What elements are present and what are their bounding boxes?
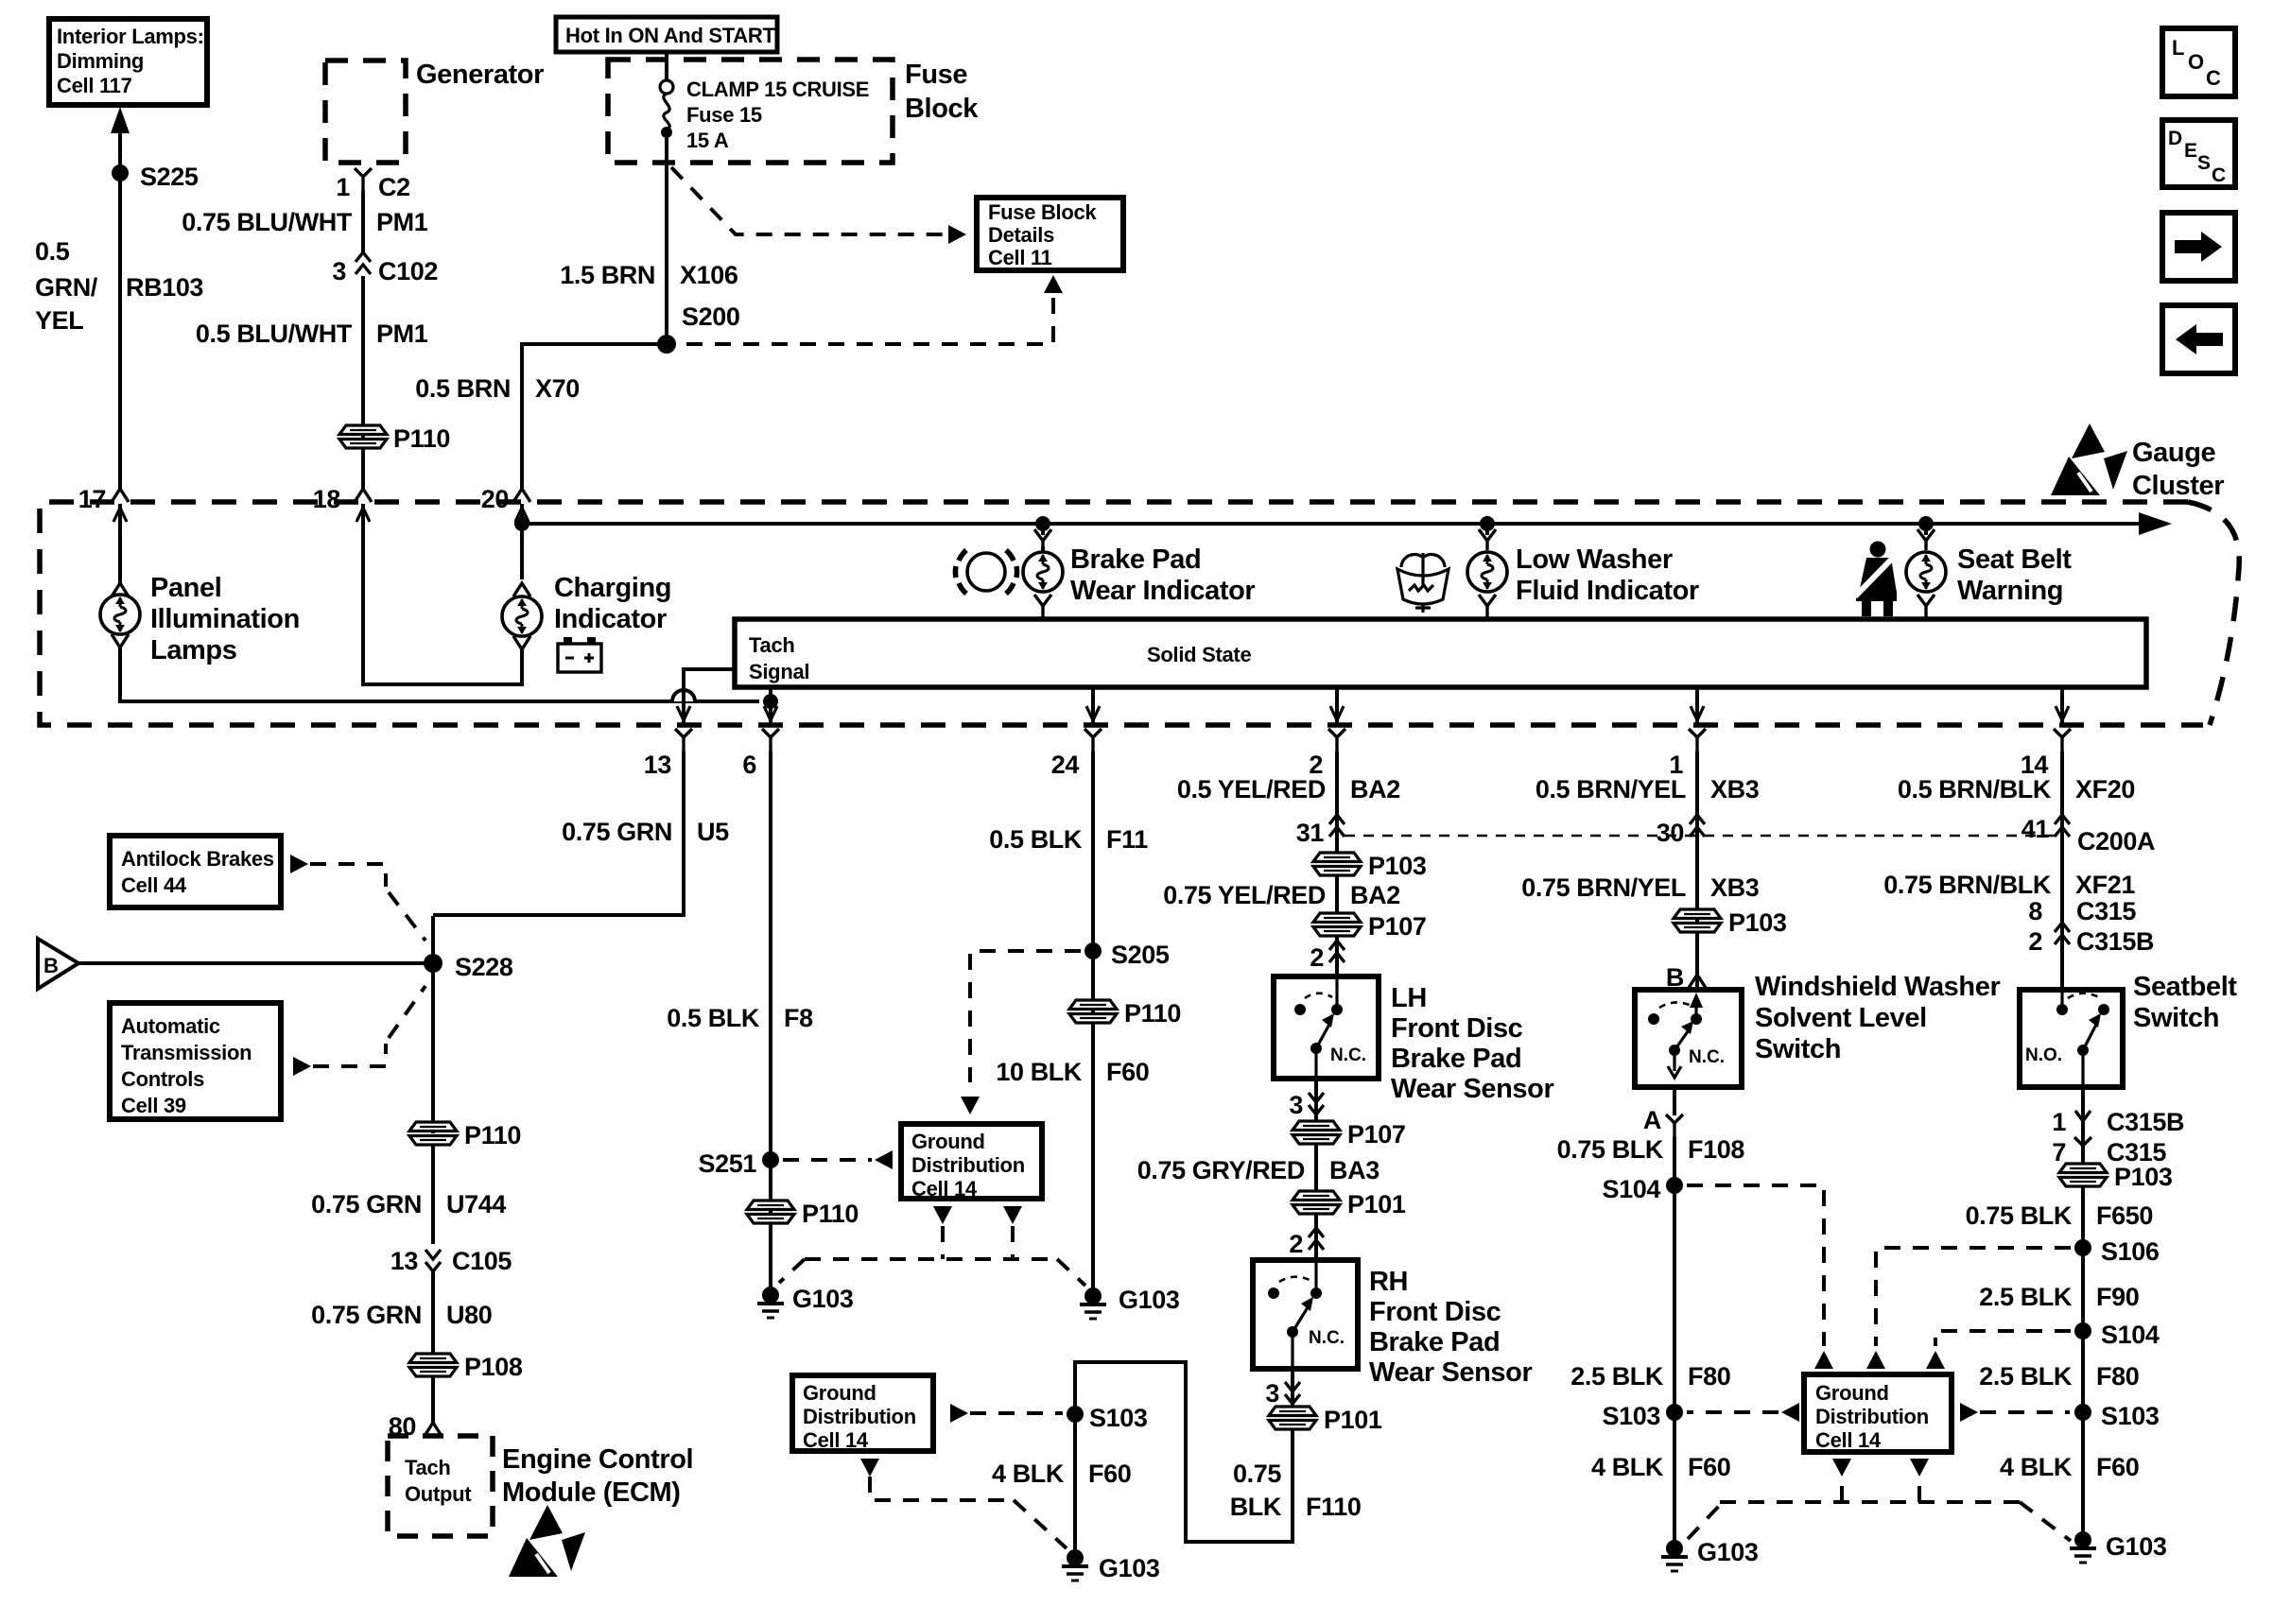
svg-text:O: O [2188,50,2204,74]
svg-text:LH: LH [1391,983,1427,1013]
svg-text:6: 6 [742,751,756,779]
svg-text:0.75 BLK: 0.75 BLK [1966,1201,2073,1230]
dashed S251 to ground dist box 1 [783,1158,872,1162]
fuse F15 CLAMP 15 CRUISE [660,78,869,152]
svg-text:XF20: XF20 [2075,775,2135,803]
wire F110 (0.75 BLK) detour to S103 [1075,1362,1293,1550]
svg-text:C200A: C200A [2077,827,2155,855]
svg-text:0.5 BRN/YEL: 0.5 BRN/YEL [1536,775,1686,803]
svg-text:F80: F80 [1688,1362,1730,1391]
svg-text:Dimming: Dimming [57,49,144,73]
svg-text:Details: Details [988,223,1054,247]
svg-text:B: B [43,954,59,977]
connector P110 (pin6 column) [747,1201,794,1223]
svg-text:Fluid Indicator: Fluid Indicator [1516,576,1699,606]
svg-text:0.75 GRY/RED: 0.75 GRY/RED [1137,1156,1305,1184]
svg-text:0.75 BLU/WHT: 0.75 BLU/WHT [182,208,353,236]
splice S106 [2074,1239,2091,1256]
svg-text:Warning: Warning [1957,576,2063,606]
svg-text:Wear Sensor: Wear Sensor [1391,1074,1553,1104]
svg-text:S104: S104 [1603,1175,1661,1203]
svg-text:Fuse Block: Fuse Block [988,200,1097,224]
svg-text:F60: F60 [2096,1453,2139,1481]
splice S104 (seatbelt column) [2074,1322,2091,1339]
wire XF21 (0.75 BRN/BLK) [2060,837,2062,990]
dashed S106 to ground dist 3 [1876,1248,2071,1346]
wire BA3 (0.75 GRY/RED) [1314,1143,1318,1192]
dashed S205 to ground dist box 1 [970,951,1081,1082]
splice S228 [424,954,442,973]
svg-text:2: 2 [1310,943,1324,972]
svg-text:N.C.: N.C. [1689,1047,1725,1067]
wire F650 (0.75 BLK) [2081,1185,2085,1540]
svg-text:0.5 BRN/BLK: 0.5 BRN/BLK [1898,775,2052,803]
connector C315B pin 1 output [2081,1087,2085,1164]
svg-text:Charging: Charging [554,573,671,603]
svg-text:X70: X70 [535,374,580,403]
wire BA2 (0.75 YEL/RED) [1335,874,1339,915]
LH front disc brake pad wear sensor SW1 [1274,976,1379,1079]
svg-text:Seatbelt: Seatbelt [2133,972,2237,1002]
ground G103 (S103 left column) [1062,1549,1088,1581]
DESC box [2162,120,2235,187]
svg-text:Hot In ON And START: Hot In ON And START [565,24,775,47]
dashed ground dist 2 to G103 [860,1459,879,1477]
svg-text:2.5 BLK: 2.5 BLK [1979,1362,2073,1391]
svg-text:Cell 14: Cell 14 [911,1177,978,1201]
svg-text:Cell 11: Cell 11 [988,246,1052,269]
svg-text:BA2: BA2 [1350,881,1400,909]
svg-text:0.75 BRN/YEL: 0.75 BRN/YEL [1521,873,1686,902]
dashed reference ATC to S228 [293,1057,311,1076]
svg-text:G103: G103 [1697,1538,1759,1566]
solid state box U1 [735,619,2146,687]
svg-text:BA2: BA2 [1350,775,1400,803]
ground G103 (pin24 column) [1080,1287,1106,1319]
arrow down pin 13 [677,706,690,720]
svg-text:Solvent Level: Solvent Level [1755,1003,1927,1033]
svg-text:Signal: Signal [749,660,809,683]
svg-text:S200: S200 [682,302,739,331]
svg-text:Interior Lamps:: Interior Lamps: [57,25,204,48]
connector P103 (pin2 column) [1313,853,1361,875]
Ground Distribution Cell 14 box 2 [792,1375,933,1452]
svg-text:P110: P110 [393,424,450,453]
wire pin24 from solid state [1091,687,1095,725]
svg-text:Generator: Generator [416,60,544,90]
connector P107 [1313,913,1361,936]
wire XF20 (0.5 BRN/BLK) [2060,752,2064,855]
junction brake pad column [1035,516,1050,531]
svg-text:N.C.: N.C. [1330,1045,1366,1065]
svg-text:C315B: C315B [2107,1108,2184,1136]
Antilock Brakes Cell 44 box [110,836,281,907]
svg-text:2.5 BLK: 2.5 BLK [1979,1283,2073,1311]
wire pin20 to bus junction [520,504,524,524]
svg-text:C105: C105 [452,1247,512,1275]
svg-text:3: 3 [1265,1379,1279,1408]
svg-text:YEL: YEL [35,306,83,335]
arrow up pin 17 inside cluster [113,508,127,522]
svg-text:U80: U80 [446,1301,492,1329]
seat belt person icon [1855,542,1897,617]
svg-text:C315: C315 [2076,897,2136,925]
svg-text:F60: F60 [1088,1460,1131,1488]
splice S104 (washer column) [1666,1177,1683,1194]
svg-text:Wear Indicator: Wear Indicator [1070,576,1255,606]
svg-text:1: 1 [2052,1108,2066,1136]
svg-text:Seat Belt: Seat Belt [1957,544,2072,575]
svg-text:Cell 14: Cell 14 [1815,1428,1882,1452]
svg-text:C: C [2206,66,2221,90]
svg-text:Tach: Tach [405,1456,451,1479]
svg-text:Wear Sensor: Wear Sensor [1369,1357,1532,1388]
RH front disc brake pad wear sensor SW2 [1253,1260,1358,1369]
svg-text:24: 24 [1051,751,1080,779]
svg-text:18: 18 [313,485,341,513]
svg-text:P103: P103 [1368,852,1427,880]
svg-text:4 BLK: 4 BLK [2000,1453,2073,1481]
svg-text:S103: S103 [1089,1404,1148,1432]
dashed reference from S200 to Fuse Block Details [1044,275,1063,293]
ESD symbol gauge cluster [2051,423,2127,495]
wire pin18 to charging lamp bottom [363,504,522,684]
wire U744 (0.75 GRN) [431,1144,435,1244]
svg-text:S228: S228 [455,953,513,981]
svg-text:4 BLK: 4 BLK [992,1460,1065,1488]
wire pin17 to panel lamp [118,504,122,584]
svg-text:P103: P103 [1728,908,1787,937]
pin 3 LH sensor output [1314,1079,1318,1122]
svg-text:Block: Block [905,94,979,124]
washer fluid icon [1397,553,1449,613]
svg-text:15 A: 15 A [686,129,729,152]
Interior Lamps: Dimming Cell 117 box [49,19,207,105]
wire F8 (0.5 BLK) pin6 down [769,752,772,1295]
bus junction at charging column [514,516,529,531]
svg-text:F8: F8 [784,1004,813,1032]
svg-text:41: 41 [2021,815,2050,843]
tach signal stub wire [684,669,735,725]
wire RB103 (0.5 GRN/YEL) [118,173,122,489]
svg-text:8: 8 [2028,897,2042,925]
svg-text:Brake Pad: Brake Pad [1391,1044,1521,1074]
svg-text:2: 2 [2028,927,2042,956]
wire PM1 (0.5 BLU/WHT) [361,276,365,489]
svg-text:10 BLK: 10 BLK [996,1058,1083,1086]
splice S103 (left) [1067,1406,1084,1423]
svg-text:Transmission: Transmission [121,1041,252,1064]
svg-text:F90: F90 [2096,1283,2139,1311]
svg-text:S103: S103 [1603,1402,1661,1430]
wire pin2 from solid state [1335,687,1339,725]
svg-text:Automatic: Automatic [121,1014,220,1038]
svg-text:S103: S103 [2101,1402,2160,1430]
arrow up pin 18 inside cluster [356,508,370,522]
svg-text:Engine Control: Engine Control [502,1444,693,1475]
Ground Distribution Cell 14 box 3 [1804,1374,1952,1452]
svg-text:D: D [2168,128,2182,149]
svg-text:Distribution: Distribution [911,1153,1025,1177]
svg-text:BA3: BA3 [1329,1156,1379,1184]
svg-text:0.75 GRN: 0.75 GRN [562,818,672,846]
svg-text:0.5 BLU/WHT: 0.5 BLU/WHT [196,320,353,348]
svg-text:0.75 GRN: 0.75 GRN [311,1190,422,1218]
svg-text:S225: S225 [140,163,199,191]
svg-text:3: 3 [1289,1091,1303,1119]
svg-text:P107: P107 [1368,912,1426,941]
svg-text:P110: P110 [1124,999,1181,1028]
dashed G103 washer to ground dist 3 [1688,1505,1720,1539]
svg-text:0.5 BLK: 0.5 BLK [989,825,1083,854]
svg-text:Module (ECM): Module (ECM) [502,1477,681,1508]
svg-text:3: 3 [332,257,346,285]
connector P103 (seatbelt column) [2059,1164,2107,1186]
svg-text:0.5 BRN: 0.5 BRN [415,374,511,403]
connector P101 [1293,1191,1340,1214]
svg-text:G103: G103 [1099,1554,1160,1582]
svg-text:CLAMP 15 CRUISE: CLAMP 15 CRUISE [686,78,869,101]
svg-text:F60: F60 [1106,1058,1149,1086]
generator dashed box [325,60,406,163]
ESD symbol ECM [509,1505,585,1577]
ground G103 (seatbelt column) [2070,1531,2096,1563]
connector P101 (RH output) [1269,1407,1316,1429]
splice S205 [1084,942,1102,959]
Fuse Block Details Cell 11 box [977,198,1123,270]
svg-text:Cell 117: Cell 117 [57,74,132,97]
svg-text:0.75: 0.75 [1233,1460,1281,1488]
dashed ground dist 2 to S103 [950,1404,968,1423]
dashed reference antilock to S228 [290,855,308,873]
svg-text:13: 13 [644,751,672,779]
dashed web ground dist 1 to G103 grounds [933,1206,952,1224]
svg-text:F60: F60 [1688,1453,1730,1481]
low washer fluid indicator lamp L4 [1485,524,1489,535]
svg-text:Controls: Controls [121,1067,204,1091]
svg-text:P101: P101 [1324,1406,1382,1434]
svg-text:G103: G103 [2106,1532,2167,1561]
wire U5 (0.75 GRN) pin13 to S228 [433,752,684,915]
svg-text:A: A [1643,1106,1661,1134]
seat belt warning lamp L5 [1924,524,1928,535]
svg-text:S104: S104 [2101,1321,2160,1349]
svg-text:P108: P108 [464,1353,523,1381]
dashed reference from fuse block to Fuse Block Details [671,167,946,234]
dashed ground dist 3 to S103 seatbelt column [1960,1403,1978,1422]
right-arrow nav box [2162,213,2235,281]
wire pin14 from solid state [2060,687,2064,725]
wire F108 (0.75 BLK) [1673,1137,1676,1548]
svg-text:0.75 GRN: 0.75 GRN [311,1301,422,1329]
svg-text:Switch: Switch [1755,1034,1841,1064]
svg-text:C102: C102 [378,257,438,285]
wire panel lamp down to tach feed [120,648,759,701]
wire X70 (0.5 BRN) from S200 to pin 20 [522,344,667,489]
svg-text:S205: S205 [1111,941,1170,969]
wire pin6 from solid state [769,687,772,725]
svg-text:Output: Output [405,1482,472,1506]
wire X106 (1.5 BRN) [665,138,668,344]
Ground Distribution Cell 14 box 1 [901,1124,1042,1201]
svg-text:13: 13 [390,1247,419,1275]
svg-text:XB3: XB3 [1710,873,1760,902]
svg-text:Fuse 15: Fuse 15 [686,103,762,127]
wire B to S228 [78,961,433,965]
fuse block dashed box [608,60,893,163]
wire BA2 (0.5 YEL/RED) [1335,752,1339,855]
pin 3 RH sensor output [1291,1369,1294,1408]
svg-text:2.5 BLK: 2.5 BLK [1570,1362,1664,1391]
svg-text:P101: P101 [1347,1190,1406,1218]
splice S225 [112,164,129,181]
connector P103 (washer column) [1674,909,1721,932]
svg-text:Illumination: Illumination [150,604,300,634]
svg-text:0.75 YEL/RED: 0.75 YEL/RED [1163,881,1326,909]
node B flag [38,939,78,989]
svg-text:RB103: RB103 [126,273,203,302]
svg-text:BLK: BLK [1230,1493,1282,1521]
svg-text:P107: P107 [1347,1120,1405,1149]
wire brake lamp to solid state [1041,616,1045,619]
svg-text:Ground: Ground [911,1130,985,1153]
svg-text:Brake Pad: Brake Pad [1369,1327,1500,1357]
panel illumination lamp L1 [112,583,129,596]
junction low washer column [1480,516,1495,531]
wire XB3 (0.5 BRN/YEL) [1695,752,1699,990]
svg-text:PM1: PM1 [376,320,428,348]
windshield washer solvent level switch SW3 [1635,990,1742,1087]
svg-text:N.O.: N.O. [2025,1045,2062,1065]
svg-text:C315B: C315B [2076,927,2154,956]
svg-text:Distribution: Distribution [803,1405,916,1428]
svg-text:U744: U744 [446,1190,506,1218]
svg-text:S251: S251 [699,1149,757,1178]
svg-text:GRN/: GRN/ [35,273,98,302]
svg-text:Indicator: Indicator [554,604,667,634]
svg-text:1.5 BRN: 1.5 BRN [560,261,655,289]
svg-text:Gauge: Gauge [2132,438,2216,468]
connector P107 (LH output) [1293,1121,1340,1144]
arrow up pin 20 inside cluster [515,508,529,522]
junction seat belt column [1918,516,1934,531]
svg-text:Brake Pad: Brake Pad [1070,544,1201,575]
arrow into Interior Lamps box [111,107,130,133]
svg-text:XB3: XB3 [1710,775,1760,803]
wire F11 (0.5 BLK) pin24 down [1091,752,1095,1296]
battery icon [558,637,601,672]
svg-text:30: 30 [1657,819,1684,847]
splice S251 [762,1151,779,1168]
svg-text:20: 20 [481,485,509,513]
connector P110 (ECM column) [409,1122,457,1145]
svg-text:L: L [2172,36,2184,60]
dashed S104 to ground dist 3 [1935,1331,2071,1346]
pin A washer switch output [1673,1087,1676,1115]
svg-text:F110: F110 [1306,1493,1361,1521]
svg-text:2: 2 [1289,1230,1303,1258]
svg-text:0.5 BLK: 0.5 BLK [667,1004,760,1032]
svg-text:17: 17 [78,485,106,513]
dashed connector line C200A [1345,835,2055,838]
junction on pin6 wire [763,694,778,709]
connector P110 (pin24 column) [1069,1000,1117,1023]
wire pin1 from solid state [1695,687,1699,725]
dashed S104 to ground dist 3 [1687,1185,1824,1346]
pin 80 ECM [431,1375,435,1423]
svg-text:Cluster: Cluster [2132,471,2224,501]
pin 2 RH sensor [1314,1213,1318,1260]
indicator bus wire [522,522,2148,526]
svg-text:G103: G103 [792,1285,854,1313]
splice S103 (washer column) [1666,1404,1683,1421]
svg-text:Distribution: Distribution [1815,1405,1929,1428]
svg-text:Front Disc: Front Disc [1391,1013,1523,1044]
dashed ground dist 3 left arrow to washer S103 [1781,1403,1799,1422]
svg-text:31: 31 [1296,819,1325,847]
svg-text:Ground: Ground [803,1381,876,1405]
svg-text:Cell 39: Cell 39 [121,1094,186,1117]
svg-text:PM1: PM1 [376,208,428,236]
svg-text:Antilock Brakes: Antilock Brakes [121,847,274,871]
svg-text:P103: P103 [2114,1163,2173,1191]
pin 2 LH sensor [1335,935,1339,976]
wire PM1 (0.75 BLU/WHT) [361,191,365,253]
splice S200 [657,335,676,354]
Hot In ON And START box [556,17,777,52]
svg-text:Switch: Switch [2133,1003,2219,1033]
svg-text:F80: F80 [2096,1362,2139,1391]
svg-text:F11: F11 [1106,825,1148,854]
svg-text:RH: RH [1369,1267,1408,1297]
svg-text:0.5: 0.5 [35,237,70,266]
svg-text:Front Disc: Front Disc [1369,1297,1501,1327]
svg-text:7: 7 [2052,1138,2066,1166]
svg-text:F108: F108 [1688,1135,1744,1164]
ground G103 (washer column) [1661,1540,1688,1571]
svg-text:Ground: Ground [1815,1381,1889,1405]
svg-text:Lamps: Lamps [150,635,236,665]
svg-text:1: 1 [336,173,350,201]
svg-text:Cell 44: Cell 44 [121,873,187,897]
splice S103 (seatbelt column) [2074,1404,2091,1421]
svg-text:0.75 BLK: 0.75 BLK [1557,1135,1664,1164]
svg-text:Solid State: Solid State [1147,643,1251,666]
svg-text:XF21: XF21 [2075,871,2135,899]
svg-text:N.C.: N.C. [1309,1328,1345,1348]
svg-text:F650: F650 [2096,1201,2153,1230]
wire S225 to Interior Lamps [118,131,122,173]
svg-text:E: E [2184,140,2197,162]
svg-text:S106: S106 [2101,1237,2160,1266]
svg-text:X106: X106 [680,261,738,289]
wire from Hot box to fuse [665,52,668,81]
svg-text:P110: P110 [802,1200,859,1228]
wire U5 vertical into S228 [431,916,435,1133]
svg-text:P110: P110 [464,1121,521,1149]
svg-text:4 BLK: 4 BLK [1591,1453,1664,1481]
svg-text:C: C [2212,164,2226,186]
svg-text:C2: C2 [378,173,410,201]
charging indicator lamp L2 [520,524,524,579]
connector P108 [409,1354,457,1376]
connector P110 [339,425,387,448]
brake pad wear indicator lamp L3 [1041,524,1045,552]
svg-text:0.5 YEL/RED: 0.5 YEL/RED [1177,775,1326,803]
svg-text:0.75 BRN/BLK: 0.75 BRN/BLK [1883,871,2052,899]
Automatic Transmission Controls Cell 39 box [110,1003,281,1119]
svg-text:Fuse: Fuse [905,60,967,90]
